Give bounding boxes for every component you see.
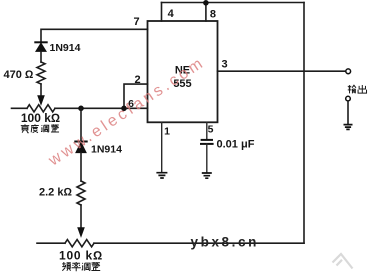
wire R2 to wiper arrow of RP2 [80,205,82,229]
potentiometer RP1 100k zigzag [27,105,55,112]
op IC U1 NE555 box [148,21,218,122]
wiper arrow RP1 [38,96,44,105]
svg-text:www.elecfans.com: www.elecfans.com [45,54,208,170]
svg-text:5: 5 [208,124,214,136]
svg-text:0.01: 0.01 [217,139,238,151]
wire pin 1 to ground [161,122,163,172]
svg-text:8: 8 [210,9,216,21]
resistor R1 470 ohm [37,62,45,84]
svg-text:ybx8.cn: ybx8.cn [191,234,259,249]
junction node diode branch [78,106,84,112]
svg-text:100 kΩ: 100 kΩ [21,111,60,125]
wire C1 to ground [206,144,208,172]
output terminal circle bottom [346,96,351,101]
ground C1 [202,173,212,178]
svg-text:100 kΩ: 100 kΩ [59,248,103,262]
svg-text:μF: μF [241,139,255,151]
diode D2 1N914 [75,141,86,143]
output terminal circle top [346,69,351,74]
watermark faint chevron bottom right [333,254,353,269]
wire RP1 rail / pin 6 net [12,107,28,109]
svg-text:1N914: 1N914 [50,42,81,54]
RP1 function label kuan-du-tiao-zheng (width adjust) [21,124,29,132]
wire terminal to ground [347,101,349,124]
wire pin 3 output [218,70,346,72]
wire pin 7 to diode D1 [41,29,148,42]
potentiometer RP2 100k zigzag [65,240,94,247]
wire bottom rail [37,242,65,244]
svg-text:1: 1 [164,126,170,138]
wiper arrow RP2 [78,228,84,237]
capacitor C1 0.01uF [202,139,212,141]
svg-text:2.2 kΩ: 2.2 kΩ [39,187,72,199]
resistor R2 2.2k [77,181,85,205]
wire top Vcc rail [162,2,305,4]
wire right rail (Vcc down to bottom) [303,3,305,244]
svg-text:7: 7 [133,16,139,28]
svg-text:470 Ω: 470 Ω [4,69,34,81]
svg-text:1N914: 1N914 [91,144,122,156]
diode D1 1N914 [35,41,46,43]
svg-text:2: 2 [134,74,140,86]
ground pin1 [156,173,167,178]
svg-text:4: 4 [168,8,175,20]
wire pin 8 to Vcc rail [205,3,207,22]
RP2 function label pin-lv-tiao-zheng (frequency adjust) [62,262,71,271]
junction node pin2/pin6 net [121,106,127,112]
wire pin 2 branch [124,84,148,108]
output label shu-chu [348,85,356,93]
junction dot pin8/Vcc [203,0,209,6]
wire pin 5 to capacitor C1 [206,122,208,139]
svg-text:3: 3 [221,58,227,70]
ground output [344,125,353,130]
wire R1 to wiper arrow of RP1 [40,84,42,97]
wire pin 4 to Vcc rail [161,3,163,22]
wire D1 to R1 [40,51,42,62]
wire D2 to R2 [80,153,82,181]
wire junction to diode D2 [80,108,82,141]
